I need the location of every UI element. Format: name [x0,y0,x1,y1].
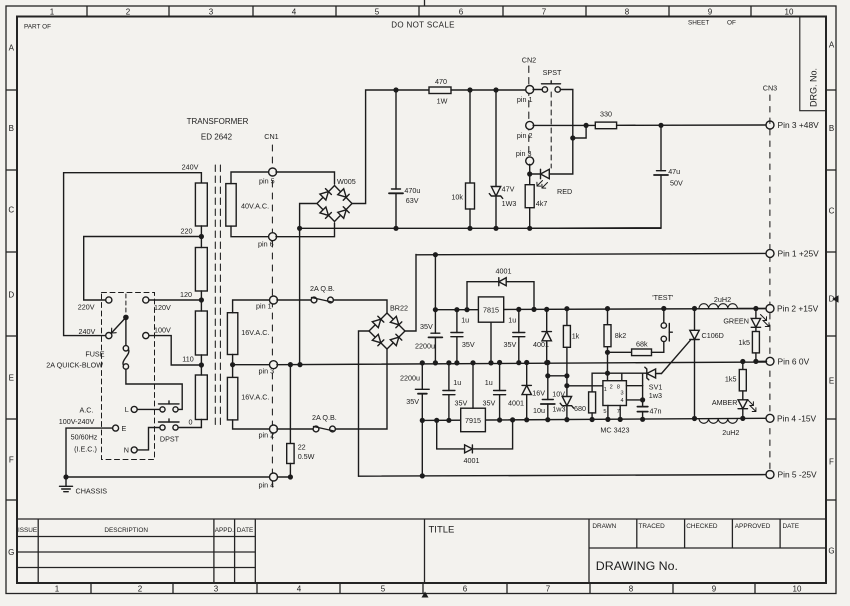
wire 120V selector contact to tap [149,299,201,301]
svg-text:A.C.: A.C. [80,406,94,415]
node R5 top [564,306,569,311]
wire TEST top to +15V rail [663,309,665,323]
svg-text:CHECKED: CHECKED [686,523,718,530]
wire pivot to fuse [125,317,127,345]
svg-text:5: 5 [603,409,606,415]
svg-text:D: D [8,291,14,300]
wire +15V rail 7815 to pin 2 [504,309,767,310]
capacitor C4 1u 35V [456,310,458,333]
resistor R8 68k [608,351,632,353]
svg-text:63V: 63V [406,196,419,205]
svg-text:DESCRIPTION: DESCRIPTION [104,527,148,534]
wire chassis rail to pin 4 [66,476,290,478]
svg-text:F: F [829,458,834,467]
terminal CN3 pin 3 [766,121,774,129]
svg-text:330: 330 [600,110,612,119]
svg-text:16V.A.C.: 16V.A.C. [241,393,269,402]
svg-text:CN1: CN1 [264,132,278,141]
svg-text:470: 470 [435,77,447,86]
node 7815 gnd [488,360,493,365]
svg-text:40V.A.C.: 40V.A.C. [241,202,269,211]
wire 16VAC-1 top to pin 1 [233,300,271,313]
terminal CN1 pin 3 [270,361,278,369]
node GREEN led top [753,306,758,311]
svg-text:5: 5 [375,8,380,17]
svg-text:100V: 100V [154,326,171,335]
node C4 top [454,307,459,312]
wire MC3423 pins 3-4 loop to 47n [626,386,642,400]
wire -15V row 2200u to pin 4 [422,418,766,420]
svg-text:E: E [829,377,834,386]
node 470u top [393,87,398,92]
wire +25V rail [416,253,767,254]
selector contact 240V [106,333,112,339]
regulator U2 7915 [461,408,486,432]
node C5 top [516,307,521,312]
wire 1k tap into MC3423 pin1 [567,385,603,387]
svg-text:1k5: 1k5 [725,374,737,383]
wire fuse to DPST pole 1 [126,369,182,409]
node C9 bottom [545,417,550,422]
node C9 tap [545,373,550,378]
svg-text:pin 3: pin 3 [259,366,275,375]
transformer T1 secondary 16V.A.C. winding 1 [227,313,237,355]
svg-text:2A Q.B.: 2A Q.B. [312,413,337,422]
svg-text:22: 22 [298,443,306,452]
svg-text:4k7: 4k7 [536,199,548,208]
ground chassis symbol [65,477,67,486]
node 22R bottom [288,474,293,479]
svg-text:4: 4 [621,398,624,404]
svg-text:3: 3 [214,585,219,594]
svg-text:E: E [122,424,127,433]
svg-text:35V: 35V [504,340,517,349]
wire 10u tap to 1k tap [548,375,567,377]
node 10k bottom [467,226,472,231]
svg-text:Pin 5 -25V: Pin 5 -25V [778,470,818,480]
IEC inlet terminal N [131,447,137,453]
svg-text:pin 1: pin 1 [256,302,272,311]
wire 240V tap to selector [64,173,202,336]
capacitor C7 1u 35V negative input [448,363,450,391]
node C9 top [545,360,550,365]
selector contact 100V [143,333,149,339]
node 47V zener top [493,87,498,92]
wire 0 tap to DPST pole 2 [178,420,201,428]
wire MC3423 pin 7 [619,406,621,420]
svg-text:50V: 50V [670,179,683,188]
selector contact 120V [143,297,149,303]
resistor R3 330 [595,122,616,129]
wire 7915 ground [472,363,474,408]
svg-text:CHASSIS: CHASSIS [76,487,108,496]
svg-text:3: 3 [621,391,624,397]
bridge rectifier W005 [317,186,352,222]
selector arm pivot node [123,315,129,321]
svg-text:BR22: BR22 [390,304,408,313]
svg-text:47u: 47u [668,167,680,176]
wire SPST to 330 junction [560,90,586,139]
wire 68k to TEST switch [652,342,664,353]
node C3 at 0V [433,360,438,365]
node 110 tap [199,362,204,367]
terminal CN3 pin 4 [766,414,774,422]
svg-text:DATE: DATE [783,523,800,530]
thyristor Q1 C106D [694,309,696,331]
node 47V zener bottom [493,226,498,231]
svg-text:SPST: SPST [543,68,562,77]
bridge rectifier BR22 [369,313,405,349]
svg-text:4001: 4001 [496,267,512,276]
switch SW1a DPST pole 1 [160,407,165,412]
supervisor U3 MC3423 [603,381,627,406]
svg-text:ISSUE: ISSUE [18,527,37,534]
svg-text:DPST: DPST [160,435,180,444]
transformer T1 core [214,165,216,425]
LED D11 AMBER [738,400,747,409]
node 47u tap [658,123,663,128]
wire pin5 to W005 ac1 [276,172,335,184]
svg-text:16V.A.C.: 16V.A.C. [241,328,269,337]
selector arm to 240V contact [111,317,126,333]
svg-text:Pin 2 +15V: Pin 2 +15V [777,304,819,314]
node D5 right [510,417,515,422]
svg-text:TITLE: TITLE [429,525,455,536]
LED D2 RED [530,173,541,175]
svg-text:Pin 1 +25V: Pin 1 +25V [778,249,820,259]
svg-text:110: 110 [182,355,193,364]
connector CN2 dashed line [528,66,530,160]
capacitor C1 470u 63V [395,90,397,189]
svg-text:35V: 35V [455,398,468,407]
switch SW1b DPST pole 2 [160,425,165,430]
fuse FS1 2A Q.B. [311,297,317,303]
wire pin6 to W005 ac2 [276,223,335,237]
terminal CN1 pin 1 [270,296,278,304]
wire pin3 down to LED node [529,164,531,174]
svg-text:G: G [8,548,14,557]
svg-text:pin 2: pin 2 [517,131,533,140]
svg-text:F: F [9,456,14,465]
terminal CN1 pin 6 [269,233,277,241]
svg-text:1: 1 [55,585,60,594]
svg-text:B: B [829,124,834,133]
transformer T1 primary winding section 110-0 [195,375,207,420]
svg-text:4: 4 [292,8,297,17]
transformer T1 secondary 40V.A.C. winding [226,184,236,227]
node C7 bottom [446,418,451,423]
svg-text:Pin 6 0V: Pin 6 0V [778,357,810,367]
svg-text:1u: 1u [453,378,461,387]
svg-text:E: E [9,374,14,383]
wire fuse FS2 to BR22 ac2 [335,349,387,429]
svg-text:10: 10 [785,8,794,17]
node 120 tap [199,297,204,302]
svg-text:8: 8 [625,8,630,17]
svg-text:APPD.: APPD. [215,527,234,534]
transformer T1 primary winding section 220-120 [195,248,207,292]
terminal CN1 pin 2 [270,425,278,433]
node C106D cathode [692,416,697,421]
svg-text:CN3: CN3 [763,84,777,93]
wire 7815 ground [490,322,492,363]
svg-text:50/60Hz: 50/60Hz [71,433,98,442]
wire 100V selector contact to 110 tap [149,336,201,365]
svg-text:1u: 1u [485,378,493,387]
wire pin2 to R3 330 [533,124,595,126]
wire MC3423 pin 8 stub [621,373,623,381]
wire -25V rail [359,475,767,477]
svg-text:16V: 16V [532,389,545,398]
svg-text:68k: 68k [636,340,648,349]
svg-text:2: 2 [610,384,613,390]
svg-text:C: C [8,206,14,215]
switch SW2 SPST [542,87,547,92]
capacitor C10 47n [642,400,644,407]
svg-text:2uH2: 2uH2 [722,428,739,437]
svg-text:DRAWN: DRAWN [592,523,616,530]
LED D10 GREEN [755,309,757,319]
svg-text:10k: 10k [451,193,463,202]
svg-text:C: C [829,207,835,216]
svg-text:120: 120 [180,290,192,299]
node 8k2 column at gate line [605,371,610,376]
svg-text:35V: 35V [420,322,433,331]
terminal CN2 pin 3 [526,157,534,165]
capacitor C8 1u 35V negative output [499,363,501,391]
node 0V at 2200u neg [420,360,425,365]
switch SW3 TEST [661,323,666,328]
svg-text:pin 2: pin 2 [259,431,275,440]
svg-text:A: A [829,41,835,50]
svg-text:1w3: 1w3 [649,391,662,400]
capacitor C5 1u 35V [518,309,520,332]
svg-text:2: 2 [138,585,143,594]
svg-text:4001: 4001 [508,398,524,407]
node 7915 gnd [470,360,475,365]
node 10k top [467,87,472,92]
svg-text:pin 3: pin 3 [516,149,532,158]
wire pin1 to fuse FS1 [277,299,311,301]
wire E to chassis rail [66,428,113,477]
svg-text:TRACED: TRACED [639,523,666,530]
svg-text:9: 9 [712,585,717,594]
wire 40VAC bottom to pin 6 [231,226,269,237]
svg-text:pin 5: pin 5 [259,177,275,186]
wire 48V rail right of R1 [451,89,526,91]
svg-text:2: 2 [126,8,131,17]
svg-text:7: 7 [542,8,547,17]
svg-text:1u: 1u [508,316,516,325]
wire 16VAC-2 bottom to pin 2 [233,420,271,429]
wire W005 - output to 0V return [300,204,317,364]
capacitor C9 10u 16V [547,363,549,400]
svg-text:10V: 10V [552,389,565,398]
IEC inlet terminal L [131,406,137,412]
svg-text:DRAWING No.: DRAWING No. [596,559,678,573]
node +25V rail to 2200u [433,252,438,257]
svg-text:G: G [828,547,834,556]
node W005 return joins rail [297,226,302,231]
wire pin2 to fuse FS2 [277,428,313,430]
svg-text:6: 6 [463,585,468,594]
node centre tap [230,362,235,367]
node 330 junction [584,123,589,128]
svg-text:2200u: 2200u [400,373,420,382]
node C5 bottom [516,360,521,365]
wire 48V ground rail [300,227,661,229]
svg-text:Pin 4 -15V: Pin 4 -15V [777,414,817,424]
capacitor C3 2200u 35V [434,255,436,334]
wire LED anode up to SPST branch [549,138,573,174]
svg-text:SHEET: SHEET [688,20,709,27]
node pin7 [618,417,623,422]
svg-text:'TEST': 'TEST' [652,293,674,302]
terminal CN1 pin 5 [269,168,277,176]
node LED-4k7 junction [527,171,532,176]
svg-text:100V-240V: 100V-240V [59,417,95,426]
transformer T1 secondary 16V.A.C. winding 2 [227,377,237,420]
svg-text:1W: 1W [437,97,448,106]
wire pin6 stub [756,360,767,362]
svg-text:2A Q.B.: 2A Q.B. [310,284,335,293]
terminal CN3 pin 1 [766,249,774,257]
node SPST-LED branch [570,135,575,140]
svg-text:AMBER: AMBER [712,398,738,407]
svg-text:1: 1 [604,387,607,393]
wire primary tap joins [200,226,202,248]
svg-text:(I.E.C.): (I.E.C.) [74,445,97,454]
node chassis junction [63,474,68,479]
IEC inlet terminal E [113,425,119,431]
node R7 top [605,306,610,311]
svg-text:7: 7 [617,409,620,415]
svg-text:C106D: C106D [702,331,724,340]
regulator U1 7815 [478,297,503,322]
resistor R10 1k5 amber [742,362,744,370]
selector arm dashed link [125,294,127,314]
svg-text:APPROVED: APPROVED [735,523,771,530]
svg-text:MC 3423: MC 3423 [600,426,629,435]
node D6 top [524,360,529,365]
svg-text:pin 1: pin 1 [517,95,533,104]
svg-text:47V: 47V [502,185,515,194]
svg-text:7815: 7815 [483,305,499,314]
node AMBER at -15V [740,416,745,421]
zener D1 47V 1W3 [495,90,497,187]
svg-text:35V: 35V [483,399,496,408]
svg-text:0.5W: 0.5W [298,452,315,461]
svg-text:1: 1 [50,8,55,17]
svg-text:B: B [9,124,14,133]
wire pin3 0V rail to regulators [277,362,770,365]
svg-text:2A QUICK-BLOW: 2A QUICK-BLOW [46,361,103,370]
terminal CN2 pin 1 [526,86,534,94]
wire L to pole 1 [137,408,160,410]
wire BR22 + to +25V rail [405,255,416,332]
svg-text:47n: 47n [650,406,662,415]
resistor R6 680 [589,392,596,413]
node 470u bottom [393,226,398,231]
svg-text:DRG. No.: DRG. No. [809,68,819,107]
svg-text:0: 0 [189,418,193,427]
svg-text:pin 6: pin 6 [258,240,274,249]
node D3 left [464,307,469,312]
wire fuse FS1 to BR22 ac1 [333,300,387,313]
svg-text:4001: 4001 [533,340,549,349]
svg-text:DO NOT SCALE: DO NOT SCALE [391,21,455,30]
svg-text:1u: 1u [461,316,469,325]
node 220 tap [199,234,204,239]
svg-text:RED: RED [557,187,572,196]
node C4 bottom [454,360,459,365]
svg-text:8: 8 [629,585,634,594]
connector CN1 dashed line [271,145,273,487]
wire MC3423 pin 5 [607,406,609,420]
node 4k7 bottom [527,226,532,231]
resistor R4 4k7 [529,174,531,185]
resistor R2 10k [469,90,471,183]
node 8k2-68k junction [605,350,610,355]
svg-text:120V: 120V [154,303,171,312]
svg-text:470u: 470u [404,186,420,195]
wire BR22 - to -25V rail [359,331,370,476]
svg-text:8: 8 [617,384,620,390]
resistor R5 1k [566,309,568,326]
node D5 left [434,418,439,423]
svg-text:7915: 7915 [465,416,481,425]
resistor R7 8k2 [607,309,609,325]
voltage selector dashed enclosure [102,293,155,460]
capacitor C6 2200u 35V negative [421,363,423,389]
diode D3 4001 bypass over 7815 [467,282,534,310]
svg-text:N: N [124,446,129,455]
terminal CN3 pin 6 [766,357,774,365]
svg-text:240V: 240V [182,163,199,172]
svg-text:1w3: 1w3 [552,405,565,414]
terminal CN2 pin 2 [526,121,534,129]
svg-text:9: 9 [708,8,713,17]
node 1k-zener tap [564,373,569,378]
wire 40VAC top to pin 5 [231,172,269,184]
svg-text:10: 10 [793,585,802,594]
node pin5 [605,417,610,422]
wire N to pole 2 [137,428,160,450]
diode D5 4001 bypass under 7915 [437,420,513,449]
resistor R22 22R 0.5W [289,365,291,444]
inductor L1 2uH2 +15V [699,304,737,309]
svg-text:GREEN: GREEN [723,317,749,326]
node W005 return at 0V [297,362,302,367]
terminal CN1 pin 4 [270,473,278,481]
node R6 bottom [590,417,595,422]
diode D6 4001 reverse protection -15V [526,363,528,420]
node C8 bottom [497,417,502,422]
node TEST at +15V [661,306,666,311]
svg-text:680: 680 [574,404,586,413]
svg-text:220V: 220V [78,303,95,312]
zener D8 10V 1w3 [562,397,571,406]
wire centre tap to pin 3 [233,364,271,366]
svg-text:1k: 1k [572,332,580,341]
terminal CN3 pin 2 [766,305,774,313]
svg-text:35V: 35V [462,340,475,349]
inductor L2 2uH2 -15V [699,419,737,424]
svg-text:5: 5 [381,585,386,594]
resistor R1 470 1W [429,87,451,94]
node C6 at -unreg row [420,418,425,423]
node 680 tap [564,383,569,388]
